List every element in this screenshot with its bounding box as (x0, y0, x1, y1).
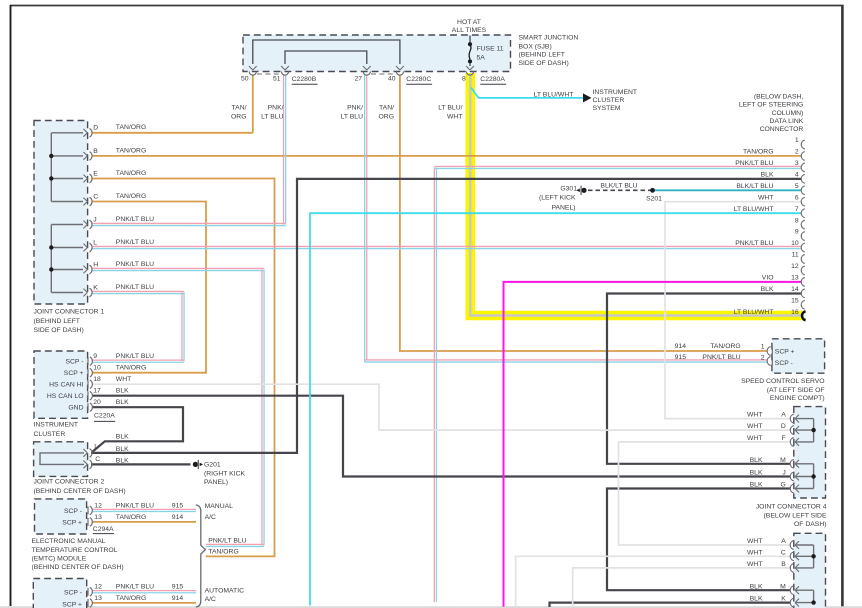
svg-text:J: J (782, 470, 785, 477)
svg-text:MANUAL: MANUAL (205, 503, 234, 510)
svg-text:SCP +: SCP + (64, 370, 84, 377)
connector C2280C body dashed line (371, 73, 396, 75)
svg-text:SMART JUNCTION: SMART JUNCTION (519, 35, 579, 42)
instrument cluster system arrow (583, 93, 592, 102)
svg-text:(LEFT KICK: (LEFT KICK (539, 195, 576, 202)
wire WHT to lower joint connector pin C (516, 556, 791, 607)
svg-text:SCP -: SCP - (65, 359, 83, 366)
svg-text:(BELOW LEFT SIDE: (BELOW LEFT SIDE (764, 512, 827, 519)
svg-text:8: 8 (462, 76, 466, 83)
svg-text:SCP -: SCP - (64, 508, 82, 515)
highlight band on LT BLU/WHT circuit from fuse 11 to DLC pin 16 (470, 73, 803, 316)
smart junction box SJB (fuse box) (243, 35, 511, 72)
svg-text:(BEHIND LEFT: (BEHIND LEFT (519, 52, 565, 59)
svg-text:B: B (93, 148, 98, 155)
wire BLK DLC pin 14 to JC4 pin M (607, 294, 801, 464)
svg-text:E: E (93, 170, 98, 177)
svg-text:F: F (782, 435, 786, 442)
svg-text:12: 12 (94, 502, 102, 509)
svg-text:WHT: WHT (447, 114, 462, 121)
svg-text:8: 8 (795, 217, 799, 224)
svg-text:11: 11 (792, 252, 799, 259)
svg-text:C294A: C294A (93, 526, 114, 533)
svg-text:SIDE OF DASH): SIDE OF DASH) (34, 327, 84, 334)
svg-text:SCP -: SCP - (775, 360, 793, 367)
svg-text:WHT: WHT (747, 561, 762, 568)
svg-text:HOT AT: HOT AT (457, 19, 481, 26)
svg-text:TAN/ORG: TAN/ORG (116, 595, 146, 602)
svg-text:40: 40 (388, 76, 396, 83)
svg-text:50: 50 (241, 76, 249, 83)
svg-text:TAN/ORG: TAN/ORG (116, 170, 146, 177)
instrument cluster pins 9 10 18 17 20 (87, 357, 89, 365)
svg-text:13: 13 (94, 595, 102, 602)
wire TAN/ORG SJB pin 50 to JC1 pin D (252, 75, 254, 133)
wire TAN/ORG JC1 pin E to manual A/C branch (92, 179, 275, 557)
svg-text:DATA LINK: DATA LINK (770, 118, 804, 125)
svg-text:LT BLU/: LT BLU/ (438, 105, 462, 112)
svg-text:K: K (93, 284, 98, 291)
svg-text:10: 10 (93, 365, 101, 372)
svg-text:TAN/ORG: TAN/ORG (743, 149, 773, 156)
svg-text:VIO: VIO (762, 275, 774, 282)
svg-text:BLK: BLK (750, 470, 763, 477)
svg-text:PNK/LT BLU: PNK/LT BLU (735, 240, 773, 247)
JC2 internal bus L-C (40, 453, 84, 465)
svg-text:1: 1 (795, 137, 799, 144)
svg-text:5A: 5A (477, 55, 486, 62)
wire TAN/ORG JC1 pin B to DLC pin 2 (92, 155, 801, 157)
svg-text:PNK/LT BLU: PNK/LT BLU (116, 502, 154, 509)
svg-text:20: 20 (93, 399, 101, 406)
svg-text:C2280B: C2280B (292, 76, 317, 83)
svg-text:PNK/LT BLU: PNK/LT BLU (116, 353, 154, 360)
svg-text:M: M (780, 457, 786, 464)
svg-text:H: H (93, 261, 98, 268)
svg-text:BLK: BLK (750, 596, 763, 603)
svg-text:14: 14 (791, 286, 799, 293)
svg-text:BLK/LT BLU: BLK/LT BLU (600, 183, 637, 190)
wire PNK/LT BLU automatic A/C pin 12 (circuit 915) (92, 590, 196, 592)
svg-text:(RIGHT KICK: (RIGHT KICK (204, 470, 246, 477)
svg-text:914: 914 (172, 595, 184, 602)
svg-text:WHT: WHT (747, 549, 762, 556)
svg-text:13: 13 (94, 514, 102, 521)
svg-text:9: 9 (93, 353, 97, 360)
svg-text:PNK/LT BLU: PNK/LT BLU (116, 239, 154, 246)
svg-text:WHT: WHT (747, 435, 762, 442)
svg-text:JOINT CONNECTOR 4: JOINT CONNECTOR 4 (756, 504, 827, 511)
fuse 11 5A (469, 36, 471, 43)
wire LT BLU/WHT fuse 11 to DLC pin 16 (highlighted core) (470, 74, 801, 316)
svg-text:27: 27 (354, 76, 362, 83)
svg-text:SYSTEM: SYSTEM (593, 105, 621, 112)
svg-text:LEFT OF STEERING: LEFT OF STEERING (739, 102, 803, 109)
svg-text:G301: G301 (560, 186, 577, 193)
svg-text:914: 914 (172, 514, 184, 521)
svg-text:1: 1 (761, 343, 765, 350)
svg-text:WHT: WHT (747, 423, 762, 430)
svg-text:10: 10 (791, 240, 799, 247)
wire PNK/LT BLU SJB pin 27 to speed control servo pin 2 (circuit 915) (364, 75, 366, 362)
wire TAN/ORG automatic A/C pin 13 (circuit 914) (92, 602, 196, 604)
svg-text:COLUMN): COLUMN) (772, 110, 804, 117)
svg-text:51: 51 (273, 76, 281, 83)
svg-text:17: 17 (93, 388, 101, 395)
svg-text:PNK/LT BLU: PNK/LT BLU (735, 160, 773, 167)
svg-text:WHT: WHT (758, 194, 773, 201)
joint connector 2 box (34, 442, 88, 477)
JC1 bus J-L-H-K (50, 225, 52, 293)
svg-text:HS CAN HI: HS CAN HI (49, 382, 83, 389)
svg-text:914: 914 (675, 343, 687, 350)
svg-text:LT BLU/WHT: LT BLU/WHT (734, 206, 774, 213)
JC1 bus D-B-E-C (50, 133, 52, 202)
svg-text:BLK: BLK (116, 399, 129, 406)
svg-text:9: 9 (795, 229, 799, 236)
svg-text:PANEL): PANEL) (551, 205, 575, 212)
svg-text:PNK/: PNK/ (268, 105, 284, 112)
svg-text:OF DASH): OF DASH) (794, 521, 826, 528)
svg-text:TAN/ORG: TAN/ORG (116, 193, 146, 200)
splice S201 (650, 188, 655, 193)
SJB pin 8 (466, 72, 473, 76)
svg-text:LT BLU/WHT: LT BLU/WHT (534, 92, 574, 99)
svg-text:L: L (93, 239, 97, 246)
svg-text:CONNECTOR: CONNECTOR (760, 126, 804, 133)
joint connector 4 lower box (794, 533, 826, 608)
wire TAN/ORG EMTC pin 13 (circuit 914) (92, 521, 196, 523)
wire PNK/LT BLU JC1 pin H to manual A/C branch (92, 267, 264, 269)
svg-text:(EMTC) MODULE: (EMTC) MODULE (32, 556, 87, 563)
wire TAN/ORG SJB pin 40 to speed control servo pin 1 (circuit 914) (400, 75, 767, 351)
svg-text:BLK: BLK (761, 171, 774, 178)
svg-text:A/C: A/C (205, 514, 216, 521)
svg-text:SCP +: SCP + (62, 601, 82, 608)
svg-text:(BELOW DASH,: (BELOW DASH, (754, 93, 804, 100)
wire WHT to lower joint connector pin B (573, 568, 791, 607)
svg-text:LT BLU/WHT: LT BLU/WHT (734, 309, 774, 316)
svg-text:FUSE 11: FUSE 11 (477, 45, 504, 52)
svg-text:(BEHIND CENTER OF DASH): (BEHIND CENTER OF DASH) (34, 488, 126, 495)
svg-text:GND: GND (68, 405, 83, 412)
svg-text:C: C (781, 549, 786, 556)
svg-text:INSTRUMENT: INSTRUMENT (34, 422, 79, 429)
svg-text:ORG: ORG (379, 114, 394, 121)
svg-text:18: 18 (93, 376, 101, 383)
wire VIO DLC pin 13 drop (504, 282, 802, 607)
JC4 bus A-D-F (813, 419, 815, 442)
wire PNK/LT BLU SJB pin 51 to JC1 pin J (283, 75, 285, 225)
automatic A/C module box (33, 579, 86, 608)
wire BLK instrument cluster pin 20 to JC2 pin L (92, 407, 183, 452)
svg-text:PNK/: PNK/ (347, 105, 363, 112)
svg-text:INSTRUMENT: INSTRUMENT (593, 89, 638, 96)
svg-text:BLK: BLK (761, 286, 774, 293)
svg-text:TAN/ORG: TAN/ORG (710, 343, 740, 350)
wire BLK JC2 pin L to DLC pin 4 (91, 179, 801, 453)
wire WHT JC4 pin F to lower joint connector pin A (619, 442, 791, 545)
wire WHT DLC pin 6 to JC4 pin A (665, 202, 801, 419)
svg-text:4: 4 (795, 171, 799, 178)
svg-text:ELECTRONIC MANUAL: ELECTRONIC MANUAL (32, 538, 106, 545)
speed control servo box (772, 339, 825, 373)
SJB pin 40 (396, 72, 403, 76)
svg-text:WHT: WHT (747, 412, 762, 419)
svg-text:ORG: ORG (231, 114, 246, 121)
svg-text:WHT: WHT (116, 376, 131, 383)
svg-text:BLK: BLK (116, 388, 129, 395)
svg-text:16: 16 (791, 309, 799, 316)
svg-text:PNK/LT BLU: PNK/LT BLU (208, 538, 246, 545)
wire PNK/LT BLU DLC pin 3 drop (434, 165, 801, 167)
EMTC module box (35, 499, 87, 534)
wire BLK JC4 pin G to lower joint connector pin M (607, 489, 791, 591)
SJB internal bus pin 51 to pin 27 (285, 51, 367, 64)
svg-text:JOINT CONNECTOR 2: JOINT CONNECTOR 2 (34, 478, 105, 485)
wire LT BLU/WHT DLC pin 7 drop (310, 213, 801, 605)
svg-text:(BEHIND LEFT: (BEHIND LEFT (34, 318, 80, 325)
svg-text:G201: G201 (204, 462, 221, 469)
wire BLK to lower joint connector pin K (550, 603, 791, 607)
svg-text:D: D (781, 423, 786, 430)
svg-text:AUTOMATIC: AUTOMATIC (205, 588, 244, 595)
wire PNK/LT BLU EMTC pin 12 (circuit 915) (92, 508, 196, 510)
data link connector pins 1-16 (801, 140, 805, 149)
svg-text:13: 13 (791, 275, 799, 282)
EMTC pins 12 13 (87, 506, 89, 514)
svg-text:(BEHIND CENTER OF DASH): (BEHIND CENTER OF DASH) (32, 564, 124, 571)
svg-text:PNK/LT BLU: PNK/LT BLU (116, 284, 154, 291)
svg-text:A/C: A/C (205, 596, 216, 603)
wire BLK/LT BLU splice S201 to DLC pin 5 (653, 189, 802, 191)
svg-text:CLUSTER: CLUSTER (593, 97, 625, 104)
svg-text:TAN/: TAN/ (379, 105, 394, 112)
svg-text:12: 12 (791, 263, 799, 270)
svg-text:C2280C: C2280C (406, 76, 431, 83)
wire WHT instrument cluster pin 18 to JC4 pin D (92, 384, 791, 430)
svg-text:A: A (781, 538, 786, 545)
svg-text:J: J (93, 216, 96, 223)
svg-text:LT BLU: LT BLU (261, 114, 284, 121)
svg-text:915: 915 (172, 502, 184, 509)
svg-text:C220A: C220A (94, 413, 115, 420)
svg-text:915: 915 (675, 354, 687, 361)
joint connector 1 box (34, 121, 88, 305)
svg-text:PNK/LT BLU: PNK/LT BLU (116, 261, 154, 268)
svg-text:G: G (781, 482, 786, 489)
svg-text:BLK: BLK (116, 446, 129, 453)
servo pin 2 SCP- (767, 357, 771, 366)
svg-text:BLK: BLK (750, 482, 763, 489)
ground G301 (left kick panel) (581, 188, 586, 193)
svg-text:PNK/LT BLU: PNK/LT BLU (702, 354, 740, 361)
svg-text:BLK: BLK (116, 457, 129, 464)
wire BLK/LT BLU ground G301 to splice S201 (dashed) (588, 189, 653, 191)
svg-text:B: B (781, 561, 786, 568)
svg-text:TAN/: TAN/ (232, 105, 247, 112)
svg-text:3: 3 (795, 160, 799, 167)
svg-text:C: C (95, 456, 100, 463)
svg-text:TAN/ORG: TAN/ORG (116, 147, 146, 154)
svg-text:TAN/ORG: TAN/ORG (116, 514, 146, 521)
svg-text:BLK/LT BLU: BLK/LT BLU (736, 183, 773, 190)
svg-text:TAN/ORG: TAN/ORG (208, 549, 238, 556)
svg-text:PANEL): PANEL) (204, 479, 228, 486)
svg-text:12: 12 (94, 583, 102, 590)
ground G201 (right kick panel) (193, 462, 198, 467)
svg-text:CLUSTER: CLUSTER (34, 431, 66, 438)
wire BLK instrument cluster pin 17 to JC4 pin J (92, 396, 791, 477)
svg-text:TAN/ORG: TAN/ORG (116, 365, 146, 372)
svg-text:ALL TIMES: ALL TIMES (452, 27, 487, 34)
connector C2280B body dashed line (257, 73, 281, 75)
svg-text:WHT: WHT (747, 538, 762, 545)
svg-text:7: 7 (795, 206, 799, 213)
svg-text:15: 15 (791, 297, 799, 304)
SJB pin 51 (281, 72, 288, 76)
option bracket joining manual and automatic A/C modules (196, 505, 206, 607)
SJB pin 50 (249, 72, 256, 76)
svg-text:SCP +: SCP + (775, 349, 795, 356)
joint connector 4 box (794, 407, 826, 498)
wire BLK JC2 pin C to ground G201 (91, 463, 191, 465)
svg-text:6: 6 (795, 194, 799, 201)
wire TAN/ORG JC1 pin C to instrument cluster pin 10 (92, 202, 206, 373)
svg-text:BLK: BLK (116, 433, 129, 440)
svg-text:2: 2 (795, 149, 799, 156)
svg-text:TEMPERATURE CONTROL: TEMPERATURE CONTROL (32, 547, 118, 554)
svg-text:SCP -: SCP - (64, 589, 82, 596)
svg-text:S201: S201 (646, 195, 662, 202)
svg-text:C: C (93, 193, 98, 200)
svg-text:TAN/ORG: TAN/ORG (116, 124, 146, 131)
svg-text:C2280A: C2280A (480, 76, 505, 83)
SJB internal bus pin 50 to pin 40 (253, 40, 400, 64)
svg-text:PNK/LT BLU: PNK/LT BLU (116, 583, 154, 590)
svg-text:BLK: BLK (750, 457, 763, 464)
JC4 lower bus A-C-B (813, 545, 815, 568)
SJB pin 27 (363, 72, 370, 76)
svg-text:915: 915 (172, 583, 184, 590)
JC4 bus M-J-G (813, 464, 815, 489)
svg-text:2: 2 (761, 354, 765, 361)
svg-text:M: M (780, 583, 786, 590)
automatic A/C pins 12 13 (87, 588, 89, 596)
svg-text:BLK: BLK (750, 583, 763, 590)
JC4 lower bus M-K (813, 590, 815, 602)
svg-text:(AT LEFT SIDE OF: (AT LEFT SIDE OF (767, 387, 825, 394)
svg-text:K: K (781, 596, 786, 603)
wire PNK/LT BLU JC1 pin K to instrument cluster pin 9 (92, 290, 184, 292)
svg-text:SIDE OF DASH): SIDE OF DASH) (519, 60, 569, 67)
svg-text:D: D (93, 125, 98, 132)
svg-text:A: A (781, 412, 786, 419)
svg-text:SCP +: SCP + (62, 520, 82, 527)
instrument cluster box (34, 351, 88, 418)
wire LT BLU/WHT branch to instrument cluster system (471, 88, 583, 98)
servo pin 1 SCP+ (767, 347, 771, 356)
svg-text:L: L (94, 444, 98, 451)
svg-text:SPEED CONTROL SERVO: SPEED CONTROL SERVO (741, 378, 824, 385)
svg-text:ENGINE COMPT): ENGINE COMPT) (770, 395, 825, 402)
svg-text:5: 5 (795, 183, 799, 190)
svg-text:JOINT CONNECTOR 1: JOINT CONNECTOR 1 (34, 309, 105, 316)
wire PNK/LT BLU JC1 pin L to DLC pin 10 (92, 245, 801, 247)
svg-text:LT BLU: LT BLU (341, 114, 364, 121)
svg-text:HS CAN LO: HS CAN LO (47, 393, 84, 400)
svg-text:PNK/LT BLU: PNK/LT BLU (116, 216, 154, 223)
svg-text:BOX (SJB): BOX (SJB) (519, 43, 552, 50)
